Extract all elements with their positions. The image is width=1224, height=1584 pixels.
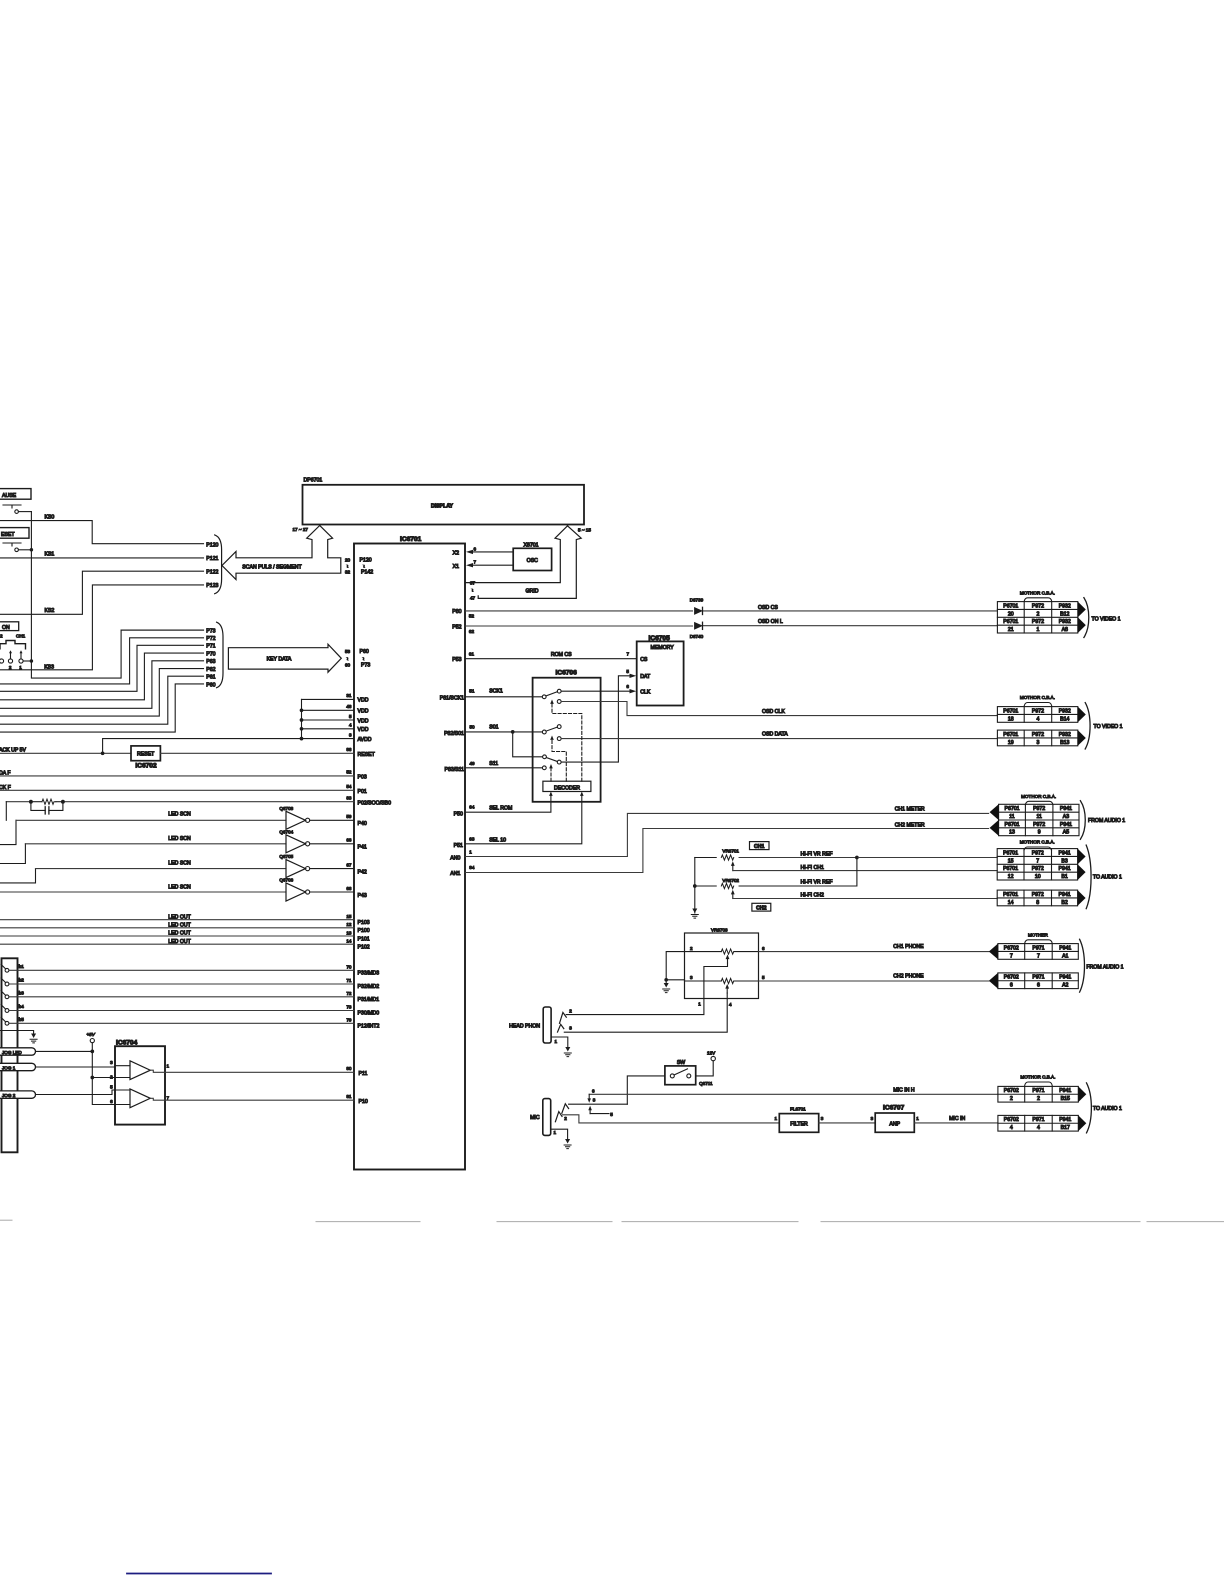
svg-text:IC6707: IC6707 [883, 1105, 905, 1112]
svg-text:P142: P142 [361, 570, 373, 576]
pin P82/S01 wire [444, 724, 542, 737]
svg-text:P40: P40 [358, 821, 367, 827]
VR6703 input ground rail [663, 952, 685, 993]
switch pole2 [542, 725, 561, 741]
svg-text:5: 5 [110, 1084, 113, 1089]
svg-text:CH1: CH1 [16, 634, 26, 639]
svg-text:P41: P41 [358, 845, 367, 851]
svg-text:P972: P972 [1032, 619, 1044, 625]
svg-text:MOTHOR C.B.A.: MOTHOR C.B.A. [1020, 840, 1055, 845]
svg-text:HI-FI CH2: HI-FI CH2 [801, 893, 824, 899]
pin P53 ROM CS wire [452, 652, 636, 663]
svg-text:P932: P932 [1059, 619, 1071, 625]
svg-text:P121: P121 [206, 556, 218, 562]
svg-text:b3: b3 [19, 990, 25, 995]
svg-text:P941: P941 [1060, 806, 1072, 812]
svg-text:Q6704: Q6704 [279, 829, 293, 834]
pin RESET wire [160, 747, 375, 758]
svg-text:P941: P941 [1059, 1117, 1071, 1123]
svg-text:4: 4 [1037, 1125, 1040, 1131]
svg-text:b1: b1 [19, 964, 25, 969]
connector table HI-FI CH2 [997, 890, 1085, 906]
svg-text:A5: A5 [1063, 830, 1069, 836]
svg-text:P6702: P6702 [1004, 945, 1019, 951]
connector table OSD CS / OSD ON L [1020, 590, 1055, 601]
filter FL6701 [774, 1107, 823, 1133]
svg-text:3: 3 [593, 1098, 596, 1103]
svg-text:~: ~ [345, 657, 350, 660]
svg-text:P52: P52 [452, 625, 461, 631]
svg-text:B2: B2 [1061, 900, 1067, 906]
wire CK F [0, 784, 367, 795]
svg-text:LED OUT: LED OUT [168, 939, 191, 945]
svg-text:D6740: D6740 [690, 634, 704, 639]
svg-text:P6701: P6701 [1003, 892, 1018, 898]
pin AN0 CH1 METER wire [450, 807, 988, 862]
svg-text:12: 12 [346, 922, 352, 927]
svg-text:4: 4 [1010, 1125, 1013, 1131]
wire OSD CLK from pole1 [561, 702, 997, 716]
wire P02 left drop [5, 802, 7, 821]
svg-text:FL6701: FL6701 [790, 1107, 806, 1112]
svg-text:X1: X1 [453, 564, 459, 570]
svg-text:P6701: P6701 [1003, 619, 1018, 625]
svg-text:LED OUT: LED OUT [168, 914, 191, 920]
svg-text:OSD ON L: OSD ON L [758, 619, 783, 625]
svg-text:P60: P60 [360, 649, 369, 655]
volume VR6703 box [685, 927, 759, 998]
headphone jack HEAD PHON [509, 1007, 551, 1043]
supply 12V [696, 1051, 716, 1076]
svg-text:~: ~ [345, 565, 350, 568]
svg-text:1: 1 [1037, 627, 1040, 633]
svg-text:5: 5 [626, 669, 629, 674]
wire CLK from switch pole1 [561, 684, 636, 693]
svg-text:TO VIDEO 1: TO VIDEO 1 [1094, 724, 1123, 730]
svg-text:Q6706: Q6706 [279, 878, 293, 883]
svg-text:6: 6 [626, 684, 629, 689]
svg-text:P62: P62 [206, 667, 215, 673]
svg-text:18: 18 [1008, 716, 1014, 722]
svg-text:MIC IN H: MIC IN H [893, 1088, 915, 1094]
svg-text:2: 2 [690, 946, 693, 951]
svg-text:CH2 METER: CH2 METER [895, 823, 925, 829]
svg-text:P941: P941 [1059, 945, 1071, 951]
pin stack 20~32 P120~P142 [345, 558, 373, 576]
svg-text:7: 7 [474, 560, 477, 565]
RESET key switch [3, 543, 33, 552]
wire HI-FI CH2 [733, 893, 997, 899]
svg-text:CH1 METER: CH1 METER [895, 807, 925, 813]
svg-text:OSD CS: OSD CS [758, 605, 778, 611]
svg-text:CLK: CLK [640, 689, 651, 695]
wire OSD DATA from pole2 [561, 731, 997, 738]
svg-text:P972: P972 [1032, 708, 1044, 714]
bracket TO AUDIO 1 (hi-fi) [1086, 845, 1091, 909]
svg-text:RESET: RESET [137, 752, 155, 758]
block arrow SCAN PULS / SEGMENT to display [222, 526, 341, 580]
VR6703 pot ch2 [685, 975, 766, 993]
svg-text:4: 4 [1037, 716, 1040, 722]
svg-text:8: 8 [1036, 900, 1039, 906]
wire P62 [0, 667, 216, 716]
pin P80 OSD CS wire [452, 605, 997, 618]
key common bus vertical [31, 512, 203, 678]
svg-text:CH1: CH1 [754, 844, 764, 850]
svg-text:20: 20 [1008, 611, 1014, 617]
svg-text:CH2: CH2 [756, 906, 766, 912]
svg-text:P103: P103 [358, 920, 370, 926]
pin P50 SEL ROM wire [454, 792, 553, 818]
svg-text:37: 37 [470, 581, 476, 586]
svg-text:P972: P972 [1032, 850, 1044, 856]
svg-text:Q6711: Q6711 [699, 1081, 713, 1086]
svg-text:61: 61 [469, 652, 475, 657]
brace P120-P123 group [215, 535, 222, 594]
inverter Q6703 LED SCN [0, 806, 354, 845]
VR6703 pot ch1 [685, 946, 766, 963]
svg-text:3: 3 [569, 1026, 572, 1031]
svg-text:P101: P101 [358, 936, 370, 942]
svg-text:13: 13 [346, 930, 352, 935]
svg-text:~: ~ [361, 565, 366, 568]
svg-text:11: 11 [1009, 814, 1014, 820]
wire LED OUT P101 [0, 930, 370, 942]
svg-text:20: 20 [345, 558, 351, 563]
bracket TO VIDEO 1 (osd cs) [1084, 598, 1089, 638]
svg-text:2: 2 [1010, 1096, 1013, 1102]
svg-text:VDD: VDD [358, 718, 369, 724]
svg-text:P6701: P6701 [1003, 603, 1018, 609]
connector table OSD DATA [997, 730, 1085, 746]
switch SW box [665, 1060, 696, 1085]
svg-text:P971: P971 [1032, 975, 1044, 981]
svg-text:P51: P51 [454, 843, 463, 849]
wire LED OUT P102 [0, 939, 370, 951]
switch contact b3 [1, 990, 379, 1003]
key PAUSE box [0, 489, 31, 500]
wire filter to amp [819, 1122, 876, 1124]
svg-text:81: 81 [346, 1094, 352, 1099]
resistor in P02 line [30, 799, 65, 804]
svg-text:P71: P71 [206, 644, 215, 650]
svg-text:P120: P120 [206, 542, 218, 548]
svg-text:HEAD PHON: HEAD PHON [509, 1023, 540, 1029]
CH1 selector contact frame [0, 634, 26, 649]
svg-text:P43: P43 [358, 893, 367, 899]
wire CH1 PHONE [759, 944, 991, 952]
svg-text:A1: A1 [1062, 953, 1068, 959]
svg-text:84: 84 [469, 865, 475, 870]
connector table CH1 PHONE [1025, 932, 1053, 943]
svg-text:LED SCN: LED SCN [168, 861, 191, 867]
svg-text:1: 1 [19, 665, 22, 670]
wire P63 [0, 659, 216, 708]
svg-text:2: 2 [1037, 1096, 1040, 1102]
svg-text:P6701: P6701 [1003, 866, 1018, 872]
block arrow grid bus to display [465, 526, 567, 583]
connector table CH1/CH2 METER [1021, 794, 1056, 805]
svg-text:3: 3 [110, 1060, 113, 1065]
microphone jack MIC [530, 1099, 551, 1136]
svg-text:IC6706: IC6706 [556, 669, 578, 676]
svg-text:IC6701: IC6701 [400, 536, 422, 543]
pin AN1 CH2 METER wire [450, 823, 988, 878]
svg-text:P972: P972 [1032, 732, 1044, 738]
svg-text:~: ~ [470, 589, 475, 592]
switch contact b2 [1, 978, 379, 991]
svg-text:P6701: P6701 [1004, 822, 1019, 828]
key RESET box [0, 528, 29, 539]
svg-text:P100: P100 [358, 928, 370, 934]
svg-text:P6701: P6701 [1003, 732, 1018, 738]
wire P71 [0, 644, 216, 692]
svg-text:CH1 PHONE: CH1 PHONE [893, 944, 924, 950]
svg-text:1: 1 [555, 1039, 558, 1044]
svg-text:9: 9 [1038, 830, 1041, 836]
svg-text:SEL 10: SEL 10 [489, 838, 506, 844]
svg-text:3: 3 [1037, 740, 1040, 746]
svg-text:AVDD: AVDD [358, 737, 372, 743]
potentiometer VR6701 [695, 848, 857, 870]
svg-text:OSD CLK: OSD CLK [762, 709, 785, 715]
wire BACK UP 5V [0, 739, 302, 755]
svg-text:P60: P60 [206, 682, 215, 688]
wire P60 [0, 682, 216, 732]
svg-text:P80: P80 [452, 609, 461, 615]
svg-text:3: 3 [349, 732, 352, 737]
svg-text:80: 80 [346, 1066, 352, 1071]
buffer IC6704 box [115, 1040, 165, 1125]
svg-text:TO VIDEO 1: TO VIDEO 1 [1092, 617, 1121, 623]
svg-text:2: 2 [1037, 611, 1040, 617]
svg-text:ANP: ANP [889, 1122, 900, 1128]
wire CH2 PHONE [759, 973, 991, 981]
svg-text:4: 4 [729, 1002, 732, 1007]
pin P81/SCK1 wire [440, 688, 542, 701]
wire P02/SOO/SB0 [6, 796, 391, 807]
svg-text:52: 52 [346, 770, 352, 775]
svg-text:Q6703: Q6703 [279, 806, 293, 811]
svg-text:VR6703: VR6703 [711, 927, 728, 932]
dashed control pole3 [550, 768, 552, 781]
wire S01 branch to pole3 [513, 732, 543, 757]
wire P10 [150, 1094, 368, 1105]
svg-text:IC6702: IC6702 [135, 763, 157, 770]
wire MIC IN H contact 6 [587, 1088, 998, 1103]
connector table MIC IN H [1020, 1075, 1055, 1086]
svg-text:B1: B1 [1061, 874, 1067, 880]
memory IC6705 [637, 635, 684, 705]
svg-text:13: 13 [1009, 830, 1015, 836]
svg-text:B14: B14 [1060, 716, 1069, 722]
svg-text:86: 86 [346, 747, 352, 752]
svg-text:FILTER: FILTER [790, 1122, 808, 1128]
svg-text:P32/MD2: P32/MD2 [358, 984, 380, 990]
svg-text:CH2 PHONE: CH2 PHONE [893, 973, 924, 979]
mic contact 2 [555, 1112, 779, 1123]
svg-text:P12/INT2: P12/INT2 [358, 1024, 380, 1030]
wire P72 [0, 636, 216, 684]
wire HI-FI VR REF (ch1) [801, 851, 998, 859]
svg-text:TO AUDIO 1: TO AUDIO 1 [1093, 875, 1122, 881]
svg-text:7: 7 [1010, 953, 1013, 959]
dashed control pole1 [552, 704, 582, 782]
svg-text:MIC: MIC [530, 1115, 540, 1121]
pin stack 37~47 GRID [470, 581, 539, 601]
block arrow KEY DATA into IC6701 [228, 644, 341, 672]
svg-text:VR6701: VR6701 [722, 848, 739, 853]
svg-text:P122: P122 [206, 569, 218, 575]
svg-text:6: 6 [1010, 983, 1013, 989]
svg-text:67: 67 [346, 862, 352, 867]
svg-text:P83/S11: P83/S11 [444, 767, 464, 773]
svg-text:P33/MD3: P33/MD3 [358, 971, 380, 977]
svg-text:P82/S01: P82/S01 [444, 731, 464, 737]
pin P83/S11 wire [444, 761, 542, 773]
terminal JOG 2 [0, 1090, 130, 1098]
wire HI-FI CH1 [733, 865, 997, 871]
svg-text:KS2: KS2 [45, 608, 55, 614]
svg-text:b4: b4 [19, 1004, 25, 1009]
svg-text:5: 5 [610, 1112, 613, 1117]
node KS2 [0, 569, 219, 614]
svg-text:B12: B12 [1060, 611, 1069, 617]
wire DAT from switch pole3 [561, 669, 636, 762]
switch contact b4 [1, 1004, 379, 1017]
svg-text:A3: A3 [1063, 814, 1069, 820]
terminal JOG 1 [0, 1063, 130, 1070]
svg-text:12: 12 [1008, 874, 1014, 880]
svg-text:15: 15 [1008, 858, 1014, 864]
svg-text:A8: A8 [1062, 627, 1068, 633]
selector contact circles [0, 650, 33, 670]
svg-text:VR6702: VR6702 [722, 878, 739, 883]
bracket FROM AUDIO 1 (phone) [1080, 939, 1085, 992]
VR6703 wiper pin4 path [564, 993, 732, 1032]
svg-text:7: 7 [167, 1095, 170, 1100]
svg-text:52: 52 [469, 613, 475, 618]
svg-text:59: 59 [346, 814, 352, 819]
svg-text:P941: P941 [1058, 866, 1070, 872]
svg-text:B17: B17 [1061, 1125, 1070, 1131]
pin X1 wire [453, 560, 514, 570]
svg-text:P972: P972 [1033, 822, 1045, 828]
svg-text:54: 54 [346, 784, 352, 789]
dashed control pole2 [552, 740, 566, 782]
svg-text:P932: P932 [1059, 708, 1071, 714]
svg-text:FROM AUDIO 1: FROM AUDIO 1 [1086, 965, 1123, 971]
svg-text:A2: A2 [1062, 983, 1068, 989]
svg-text:12V: 12V [707, 1051, 716, 1056]
svg-text:64: 64 [469, 805, 475, 810]
bracket TO AUDIO 1 (mic) [1087, 1083, 1092, 1133]
svg-text:2: 2 [569, 1009, 572, 1014]
svg-text:P941: P941 [1058, 850, 1070, 856]
decoder box [543, 781, 591, 791]
svg-text:MIC IN: MIC IN [949, 1116, 965, 1122]
display DP6701 [303, 478, 585, 525]
svg-text:1: 1 [698, 1001, 701, 1006]
svg-text:LED SCN: LED SCN [168, 836, 191, 842]
svg-text:S01: S01 [489, 724, 498, 730]
wire SW to mic line [627, 1076, 665, 1104]
svg-text:AUSE: AUSE [2, 493, 17, 499]
svg-text:10: 10 [1035, 874, 1041, 880]
svg-text:1: 1 [554, 1130, 557, 1135]
bracket FROM AUDIO 1 (meter) [1080, 801, 1085, 840]
supply +5V [87, 1032, 131, 1105]
svg-text:P972: P972 [1032, 892, 1044, 898]
svg-text:MOTHOR C.B.A.: MOTHOR C.B.A. [1020, 590, 1055, 595]
brace P60-P73 group [217, 622, 223, 687]
svg-text:P972: P972 [1033, 806, 1045, 812]
wire P70 [0, 652, 216, 700]
inverter Q6705 LED SCN [0, 854, 354, 883]
svg-text:P941: P941 [1060, 822, 1072, 828]
wire P11 [150, 1066, 367, 1077]
svg-text:63: 63 [469, 836, 475, 841]
connector table OSD CLK [1020, 695, 1055, 706]
svg-text:P120: P120 [360, 558, 372, 564]
svg-text:6: 6 [1037, 983, 1040, 989]
svg-text:P72: P72 [206, 636, 215, 642]
svg-text:b5: b5 [19, 1017, 25, 1022]
svg-text:JOG LED: JOG LED [2, 1050, 22, 1055]
svg-text:66: 66 [346, 886, 352, 891]
svg-text:83: 83 [346, 796, 352, 801]
svg-text:KEY DATA: KEY DATA [267, 657, 292, 663]
svg-text:RESET: RESET [358, 752, 376, 758]
svg-text:P53: P53 [452, 657, 461, 663]
mic break contact 5 [588, 1106, 613, 1117]
svg-text:11: 11 [1036, 814, 1041, 820]
svg-text:P02/SOO/SB0: P02/SOO/SB0 [358, 800, 392, 806]
svg-text:1: 1 [916, 1116, 919, 1121]
svg-text:1: 1 [469, 850, 472, 855]
switch contact b1 [1, 964, 379, 977]
label CH1 box [750, 842, 770, 850]
svg-text:2: 2 [110, 1074, 113, 1079]
svg-text:AN0: AN0 [450, 855, 460, 861]
buffer triangle 1 [110, 1060, 169, 1080]
svg-text:P6702: P6702 [1004, 1117, 1019, 1123]
svg-text:P03: P03 [358, 775, 367, 781]
svg-text:5: 5 [762, 975, 765, 980]
inverter Q6704 LED SCN [0, 829, 354, 863]
op IC6701 microcontroller box [354, 536, 465, 1170]
pin stack 53~60 P60~P73 [345, 649, 371, 668]
svg-text:DECODER: DECODER [554, 785, 580, 791]
svg-text:LED SCN: LED SCN [168, 885, 191, 891]
mode switch box [2, 958, 18, 1152]
svg-text:P6701: P6701 [1003, 708, 1018, 714]
node KS3 [0, 583, 219, 670]
svg-text:Q6705: Q6705 [279, 854, 293, 859]
svg-text:OSC: OSC [527, 558, 538, 564]
svg-text:P81/SCK1: P81/SCK1 [440, 695, 464, 701]
svg-text:P6701: P6701 [1004, 806, 1019, 812]
svg-text:P73: P73 [206, 629, 215, 635]
svg-text:72: 72 [346, 991, 352, 996]
svg-text:P941: P941 [1059, 975, 1071, 981]
svg-text:VDD: VDD [358, 727, 369, 733]
svg-text:3: 3 [821, 1116, 824, 1121]
diode D6740 [690, 622, 704, 639]
svg-text:VDD: VDD [358, 698, 369, 704]
svg-text:b2: b2 [19, 978, 25, 983]
connector table MIC IN [998, 1115, 1086, 1131]
